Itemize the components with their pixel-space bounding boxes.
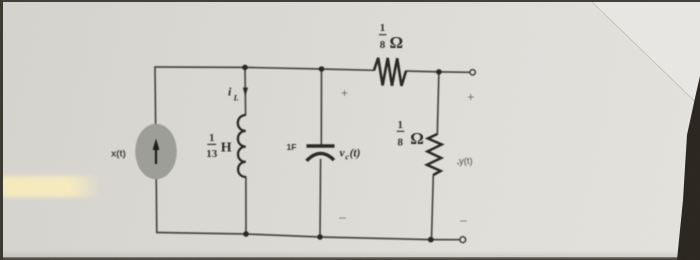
wire capacitor branch bottom (319, 160, 322, 238)
node dot capacitor bottom (317, 234, 323, 240)
bottom dark edge (0, 257, 700, 260)
wire inductor branch top (244, 67, 247, 115)
resistor R-right 1/8 ohm (vertical zigzag) (427, 134, 442, 175)
wire right branch bottom (432, 175, 434, 240)
diagonal crease line top-right (587, 0, 696, 102)
capacitor C 1F top plate (307, 144, 335, 147)
top dark edge (0, 0, 700, 2)
resistor R-top 1/8 ohm (horizontal zigzag) (374, 58, 406, 86)
wire capacitor branch top (320, 69, 322, 145)
open terminal top right (470, 70, 475, 75)
current source arrow (155, 146, 157, 164)
wire top rail left segment (155, 67, 374, 70)
bottom shadow band (0, 250, 700, 257)
inductor L 1/13 H (4 left-bulging loops) (238, 115, 246, 177)
node dot inductor bottom (243, 231, 249, 237)
wire left branch (155, 67, 157, 233)
wire right branch top (437, 72, 439, 134)
node dot capacitor top (319, 66, 325, 72)
node dot right branch bottom (428, 237, 434, 243)
speck before y(t) (457, 163, 459, 165)
iL arrow on inductor wire (243, 88, 248, 97)
left dark edge (0, 0, 3, 260)
wire bottom rail (157, 233, 460, 240)
capacitor C 1F bottom curved plate (307, 153, 335, 160)
wire top rail right segment (406, 71, 470, 72)
node dot inductor top (242, 65, 248, 71)
open terminal bottom right (460, 237, 466, 243)
current source x(t) circle (135, 124, 177, 180)
yellow reflection streak bottom-left (0, 176, 102, 197)
node dot right branch top (436, 69, 442, 75)
wire inductor branch bottom (245, 177, 247, 234)
